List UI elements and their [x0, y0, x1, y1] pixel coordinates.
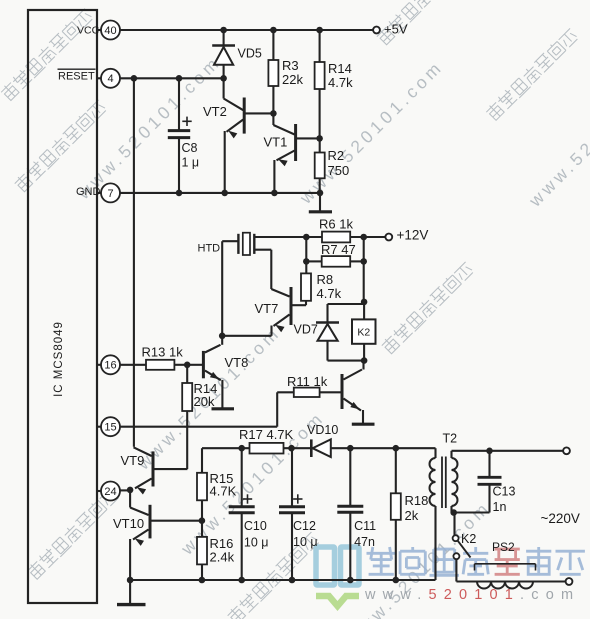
svg-text:C10: C10 [244, 519, 267, 533]
svg-text:VD5: VD5 [238, 47, 262, 61]
svg-text:7: 7 [107, 188, 113, 200]
svg-text:~220V: ~220V [541, 511, 580, 526]
svg-text:R7 47: R7 47 [321, 242, 356, 257]
svg-text:VT10: VT10 [113, 516, 144, 531]
svg-text:2.4k: 2.4k [210, 550, 235, 565]
svg-text:R18: R18 [405, 493, 429, 508]
svg-text:4: 4 [107, 73, 113, 85]
svg-text:VT8: VT8 [225, 355, 249, 370]
svg-text:750: 750 [328, 163, 350, 178]
svg-text:4.7k: 4.7k [328, 75, 353, 90]
svg-text:20k: 20k [194, 394, 215, 409]
svg-text:15: 15 [104, 422, 116, 434]
svg-text:R11 1k: R11 1k [287, 374, 328, 389]
svg-text:10 μ: 10 μ [244, 536, 269, 550]
svg-text:R2: R2 [328, 148, 345, 163]
svg-text:C11: C11 [354, 519, 376, 533]
svg-text:2k: 2k [405, 508, 419, 523]
svg-text:24: 24 [104, 486, 116, 498]
svg-text:K2: K2 [461, 532, 476, 546]
svg-text:40: 40 [104, 25, 116, 37]
svg-text:IC MCS8049: IC MCS8049 [53, 321, 65, 397]
svg-text:VT1: VT1 [264, 134, 288, 149]
svg-text:VD7: VD7 [294, 323, 318, 337]
svg-text:HTD: HTD [198, 243, 221, 255]
svg-text:4.7k: 4.7k [317, 286, 342, 301]
svg-text:GND: GND [76, 186, 101, 198]
svg-text:10 μ: 10 μ [293, 535, 318, 549]
svg-text:R6 1k: R6 1k [319, 216, 353, 231]
svg-text:+5V: +5V [384, 22, 408, 37]
svg-text:C13: C13 [493, 484, 516, 498]
svg-text:VT7: VT7 [255, 301, 279, 316]
svg-text:1n: 1n [493, 500, 507, 514]
svg-text:+12V: +12V [397, 228, 429, 243]
svg-text:47n: 47n [354, 535, 375, 549]
svg-text:VD10: VD10 [307, 423, 338, 437]
svg-text:R13 1k: R13 1k [142, 344, 184, 359]
svg-text:4.7K: 4.7K [210, 483, 237, 498]
svg-text:1 μ: 1 μ [182, 155, 200, 169]
svg-text:22k: 22k [282, 72, 303, 87]
svg-text:RESET: RESET [58, 71, 95, 83]
svg-text:VT2: VT2 [203, 104, 227, 119]
svg-text:K2: K2 [357, 326, 370, 338]
svg-text:C12: C12 [293, 519, 316, 533]
svg-text:R17 4.7K: R17 4.7K [239, 427, 294, 442]
svg-text:PS2: PS2 [492, 540, 515, 554]
svg-text:T2: T2 [443, 431, 458, 445]
svg-text:R8: R8 [317, 272, 334, 287]
svg-text:VT9: VT9 [121, 453, 145, 468]
svg-text:R3: R3 [282, 58, 299, 73]
svg-text:C8: C8 [182, 141, 198, 155]
svg-text:www.520101.com: www.520101.com [364, 587, 580, 603]
svg-text:16: 16 [104, 360, 116, 372]
svg-text:VCC: VCC [77, 25, 100, 37]
